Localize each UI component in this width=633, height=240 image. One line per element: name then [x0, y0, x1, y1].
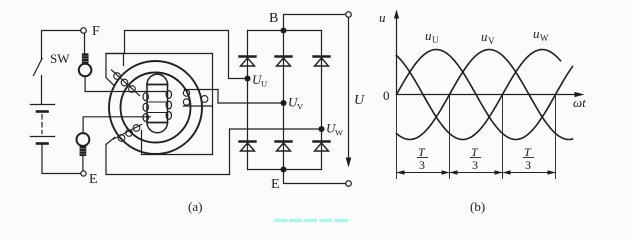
chart y-axis — [394, 10, 399, 95]
diode D4 — [240, 142, 256, 152]
winding W1 bevel — [106, 78, 114, 86]
diode D2 — [276, 57, 292, 67]
winding W1 terminal box — [106, 54, 124, 78]
wire inner route W1 to W2 rail — [106, 54, 213, 155]
wire battery to bottom rail — [42, 145, 81, 174]
svg-text:u: u — [481, 29, 488, 44]
svg-text:3: 3 — [419, 158, 425, 172]
svg-text:V: V — [488, 36, 495, 46]
highlight artifact cyan dashes — [274, 219, 348, 222]
brush (bottom) — [80, 146, 87, 156]
dimension arrows T/3 — [397, 170, 556, 174]
rectifier leg 3 — [321, 31, 323, 170]
diode D5 — [276, 142, 292, 152]
terminal F — [81, 28, 87, 34]
svg-text:U: U — [432, 35, 439, 45]
node U_U junction — [245, 76, 251, 82]
svg-text:3: 3 — [472, 158, 478, 172]
generator stator outer circle — [109, 61, 202, 154]
brush (top) — [82, 53, 89, 64]
curve u_U — [397, 50, 573, 140]
curve u_W — [397, 50, 561, 140]
slip ring (top) — [79, 64, 92, 77]
svg-text:W: W — [540, 33, 549, 43]
wire top-left from switch to terminal F — [42, 31, 81, 60]
chart x-axis — [397, 92, 585, 97]
node E junction — [281, 167, 287, 173]
bus top B — [248, 30, 322, 32]
terminal E (left) — [81, 171, 86, 176]
svg-text:E: E — [271, 177, 280, 192]
node U_V junction — [281, 100, 287, 106]
rotor coil loops left — [143, 93, 148, 122]
diode D3 — [314, 57, 330, 67]
svg-text:U: U — [354, 93, 365, 108]
node U_W junction — [319, 126, 325, 132]
svg-text:u: u — [533, 26, 540, 41]
svg-text:B: B — [269, 11, 278, 26]
fraction bars T/3 — [417, 157, 534, 159]
wire phase V step to node U_V — [218, 90, 281, 104]
node B junction — [281, 28, 287, 34]
svg-text:ωt: ωt — [573, 95, 586, 110]
svg-text:E: E — [89, 172, 98, 187]
wire bottom brush to terminal E — [82, 156, 84, 171]
output arrow U — [346, 18, 352, 168]
svg-text:u: u — [379, 10, 386, 25]
rectifier leg 1 — [247, 31, 249, 170]
slip ring (bottom) — [77, 133, 90, 146]
svg-text:(a): (a) — [188, 199, 202, 214]
svg-text:u: u — [425, 28, 432, 43]
chart T/3 marker verticals — [397, 95, 556, 179]
svg-text:0: 0 — [383, 88, 390, 103]
svg-text:U: U — [261, 79, 267, 89]
bus bottom E — [248, 169, 322, 171]
wire inner-bottom route rail to W3 — [142, 131, 213, 155]
curve u_V — [397, 50, 573, 140]
svg-text:(b): (b) — [470, 199, 485, 214]
terminal B right — [346, 12, 352, 18]
wire F to brush — [84, 33, 86, 54]
svg-text:V: V — [297, 102, 304, 112]
svg-text:F: F — [92, 24, 100, 39]
winding W3 bevel — [106, 138, 115, 145]
rotor coil loops right — [166, 91, 171, 120]
switch SW blade — [34, 59, 43, 76]
terminal E right — [346, 181, 352, 187]
generator stator inner circle — [121, 73, 191, 143]
stator winding W3 (lower-left) coil — [114, 125, 142, 142]
svg-text:SW: SW — [50, 51, 70, 66]
diode D6 — [314, 142, 330, 152]
wire phase U outer route to node U_U — [125, 31, 245, 79]
rotor winding (capsule) — [147, 74, 168, 132]
svg-text:3: 3 — [525, 158, 531, 172]
wire phase W bottom route to node U_W — [106, 129, 319, 175]
wire E stub to terminal — [284, 170, 346, 184]
battery GB — [31, 105, 55, 144]
wire bottom slip ring to rotor — [83, 117, 150, 133]
wire B stub to terminal — [284, 15, 346, 31]
diode D1 — [240, 57, 256, 67]
svg-text:W: W — [335, 128, 343, 138]
stator winding W2 (right) coil — [183, 90, 218, 107]
wire top slip ring to rotor — [85, 76, 167, 91]
rectifier leg 2 — [283, 31, 285, 170]
wire switch to battery — [41, 76, 43, 104]
stator winding W1 (upper-left) coil — [112, 70, 140, 96]
